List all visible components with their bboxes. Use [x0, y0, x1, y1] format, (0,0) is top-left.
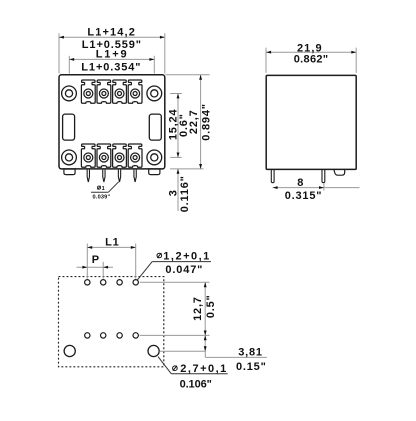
- dimension 12,7 / 0.5" (plan): [140, 282, 217, 335]
- mounting foot right: [149, 169, 160, 175]
- dimension 22,7 / 0.894": [188, 75, 212, 169]
- pin hole row1 h2: [101, 280, 106, 285]
- svg-text:1,2+0,1: 1,2+0,1: [163, 250, 210, 262]
- front view body outline: [59, 75, 165, 169]
- flange screw bottom-left: [62, 150, 77, 165]
- pin hole row2 h2: [101, 333, 106, 338]
- svg-text:L1+14,2: L1+14,2: [87, 27, 135, 39]
- svg-text:0.116": 0.116": [179, 175, 191, 212]
- mounting foot left: [64, 169, 75, 175]
- side view body outline: [266, 75, 356, 169]
- pin hole row1 h3: [117, 280, 122, 285]
- mounting hole right: [148, 345, 159, 356]
- dimension 8 / 0.315": [273, 177, 360, 202]
- clamp terminal bottom row 3: [113, 144, 127, 167]
- side view pin right: [322, 170, 325, 183]
- label hole diameter 2,7+0,1 / 0.106": [158, 357, 228, 391]
- svg-text:2,7+0,1: 2,7+0,1: [180, 363, 227, 375]
- pin hole row2 h1: [85, 333, 90, 338]
- dimension 21,9 / 0.862": [266, 42, 356, 72]
- solder pin 1 (front): [87, 170, 89, 182]
- svg-text:0.15": 0.15": [236, 361, 267, 373]
- svg-text:L1+9: L1+9: [96, 49, 128, 61]
- flange screw top-right: [147, 86, 162, 101]
- svg-text:12,7: 12,7: [192, 296, 204, 321]
- side view pin left: [271, 170, 274, 183]
- pin hole row1 h4: [133, 280, 138, 285]
- drilling plan dashed outline: [59, 277, 164, 367]
- solder pin 3 (front): [118, 170, 120, 182]
- side slot right: [149, 114, 161, 140]
- clamp terminal bottom row 2: [97, 144, 111, 167]
- pin hole row2 h3: [117, 333, 122, 338]
- svg-text:0.5": 0.5": [205, 294, 217, 318]
- clamp terminal bottom row 1: [81, 144, 95, 167]
- extension ticks rows: [166, 75, 210, 169]
- solder pin 4 (front): [134, 170, 136, 182]
- svg-text:L1: L1: [105, 236, 119, 248]
- clamp terminal bottom row 4: [128, 144, 142, 167]
- clamp terminal top row 4: [128, 80, 142, 103]
- flange screw top-left: [62, 86, 77, 101]
- side slot left: [63, 114, 75, 140]
- svg-text:3,81: 3,81: [238, 346, 263, 358]
- svg-text:0.894": 0.894": [201, 103, 213, 141]
- svg-text:0.047": 0.047": [165, 264, 203, 276]
- flange screw bottom-right: [147, 150, 162, 165]
- dimension line L1+14,2: [59, 27, 165, 51]
- pin hole row2 h4: [133, 333, 138, 338]
- clamp terminal top row 2: [97, 80, 111, 103]
- pin hole row1 h1: [85, 280, 90, 285]
- mounting hole left: [64, 345, 75, 356]
- svg-text:0.106": 0.106": [180, 378, 213, 390]
- svg-text:21,9: 21,9: [297, 42, 322, 54]
- svg-text:22,7: 22,7: [188, 109, 200, 134]
- side view locking tab: [334, 170, 345, 176]
- dimension P (plan): [77, 254, 114, 279]
- dimension line L1+9: [69, 49, 154, 74]
- clamp terminal top row 3: [113, 80, 127, 103]
- label hole diameter 1,2+0,1 / 0.047": [138, 250, 212, 279]
- svg-text:L1+0.354": L1+0.354": [81, 61, 141, 73]
- svg-text:3: 3: [168, 189, 180, 196]
- solder pin 2 (front): [103, 170, 105, 182]
- svg-text:0.315": 0.315": [285, 190, 323, 202]
- dimension 15,24 / 0.6": [167, 94, 190, 158]
- extension lines width dimensions: [59, 33, 165, 73]
- clamp terminal top row 1: [81, 80, 95, 103]
- dimension 3 / 0.116": [168, 169, 192, 212]
- svg-text:0.862": 0.862": [294, 54, 329, 66]
- svg-text:0.039": 0.039": [93, 195, 111, 201]
- svg-text:1: 1: [102, 186, 105, 192]
- dimension 3,81 / 0.15" (plan): [159, 335, 267, 373]
- svg-text:8: 8: [297, 177, 304, 189]
- svg-text:P: P: [92, 254, 100, 266]
- label pin diameter 1 / 0.039": [91, 182, 119, 201]
- dimension L1 (plan): [87, 236, 135, 278]
